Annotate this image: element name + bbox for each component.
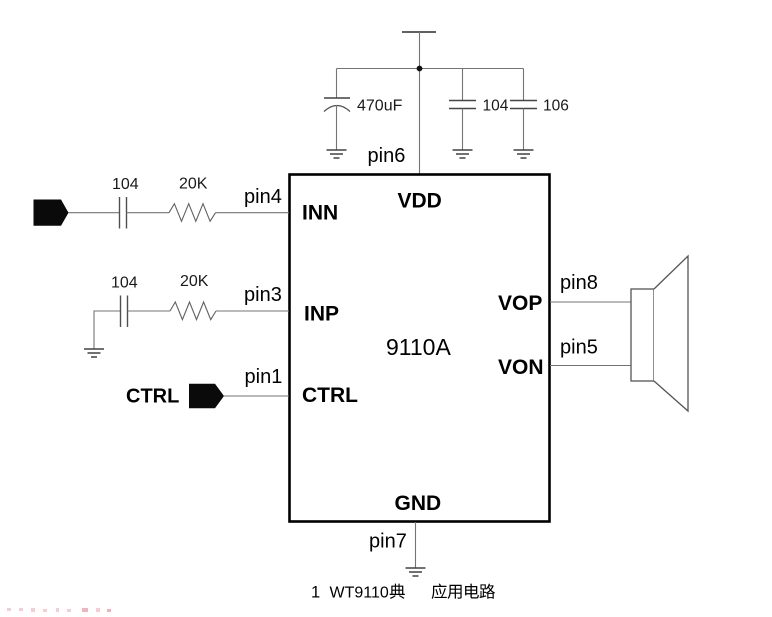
svg-text:104: 104 [112,176,139,193]
svg-text:104: 104 [483,98,509,115]
svg-text:20K: 20K [180,273,209,290]
svg-text:VOP: VOP [498,292,542,315]
svg-text:WT9110: WT9110 [330,585,389,602]
svg-text:VDD: VDD [398,190,442,213]
svg-text:470uF: 470uF [357,98,403,115]
svg-text:pin5: pin5 [560,337,598,359]
svg-text:pin7: pin7 [369,531,407,553]
svg-text:GND: GND [395,492,442,515]
svg-text:pin8: pin8 [560,272,598,294]
svg-text:9110A: 9110A [386,334,451,360]
svg-text:104: 104 [111,275,138,292]
svg-text:INP: INP [304,303,339,326]
svg-text:20K: 20K [179,176,208,193]
svg-text:pin4: pin4 [244,186,282,208]
svg-text:pin1: pin1 [245,366,283,388]
svg-text:pin3: pin3 [244,284,282,306]
svg-text:CTRL: CTRL [126,386,179,408]
svg-text:pin6: pin6 [368,145,406,167]
svg-text:106: 106 [543,98,569,115]
svg-text:VON: VON [498,356,544,379]
svg-text:INN: INN [302,202,338,225]
svg-text:1: 1 [311,584,320,602]
svg-text:CTRL: CTRL [302,384,358,407]
